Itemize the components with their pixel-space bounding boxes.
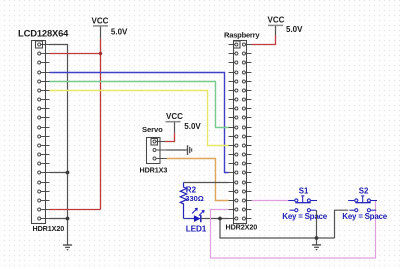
- wire: red VCC1 to LCD pin2: [50, 53, 101, 55]
- junction dot LCD pin20 bus: [66, 217, 70, 221]
- wire: LCD pin20 to bus: [50, 218, 68, 220]
- svg-text:5.0V: 5.0V: [111, 27, 128, 36]
- header J1 LCD128X64 HDR1X20: [32, 41, 50, 224]
- ground GND3 below S1: [312, 245, 321, 250]
- power VCC1 symbol: [92, 17, 129, 39]
- wire: magenta Raspberry pin18 right to S1: [252, 200, 289, 202]
- junction dot red VCC1 net: [99, 52, 102, 55]
- svg-text:Raspberry: Raspberry: [224, 30, 260, 39]
- svg-text:HDR1X20: HDR1X20: [33, 224, 65, 233]
- svg-text:S1: S1: [299, 187, 309, 196]
- svg-text:VCC: VCC: [166, 112, 183, 121]
- svg-text:5.0V: 5.0V: [184, 122, 201, 131]
- ground GND1 below LCD bus: [63, 245, 72, 250]
- wire: LED cathode to Raspberry pin20 left: [201, 218, 229, 220]
- svg-text:LED1: LED1: [186, 224, 207, 233]
- svg-text:LCD128X64: LCD128X64: [18, 27, 69, 38]
- wire: LCD pin15 to bus: [50, 172, 68, 174]
- junction dot LED cathode node: [218, 217, 222, 221]
- junction dot ground rail: [315, 236, 319, 240]
- svg-text:Servo: Servo: [142, 125, 163, 134]
- wire: S1 lower-right terminal down to ground junction: [316, 210, 318, 245]
- wire: red servo pin1 to VCC3: [165, 133, 175, 142]
- wire: bus to ground stem: [67, 219, 69, 246]
- svg-text:5.0V: 5.0V: [286, 25, 303, 34]
- wire: junction down to ground rail: [220, 219, 335, 239]
- switch S2: [348, 196, 377, 212]
- wire: yellow LCD pin6 to Raspberry pin12: [50, 91, 229, 146]
- header J2 Raspberry HDR2X20: [229, 41, 252, 224]
- wire: S2 lower-left terminal to ground rail: [335, 210, 349, 238]
- wire: magenta Raspberry pin19 left to S2 via bottom: [211, 201, 376, 259]
- wire: red VCC2 to Raspberry pin1 right: [252, 35, 276, 44]
- LED LED1: [184, 208, 205, 222]
- svg-text:S2: S2: [359, 187, 369, 196]
- svg-text:VCC: VCC: [268, 15, 285, 24]
- power VCC3 symbol: [166, 112, 202, 133]
- switch S1: [288, 196, 317, 212]
- junction dot LCD pin15 bus: [66, 171, 70, 175]
- svg-text:HDR2X20: HDR2X20: [226, 223, 258, 232]
- svg-text:HDR1X3: HDR1X3: [140, 166, 168, 175]
- wire: green LCD pin5 to Raspberry pin10: [50, 82, 229, 128]
- wire: red VCC1 to LCD pin19: [50, 209, 101, 211]
- resistor R2: [180, 183, 186, 219]
- wire: orange servo pin3 to Raspberry pin18 left: [167, 159, 229, 201]
- svg-text:VCC: VCC: [92, 17, 109, 26]
- wire: LCD pin1 to ground bus: [50, 45, 68, 219]
- wire: blue LCD pin4 to Raspberry pin15: [50, 73, 229, 173]
- header J3 Servo HDR1X3: [147, 138, 167, 164]
- power VCC2 symbol: [268, 15, 304, 35]
- wire: red VCC1 vertical: [100, 39, 102, 210]
- wire: servo pin2 to ground GND2: [167, 149, 188, 151]
- svg-text:330Ω: 330Ω: [185, 194, 204, 203]
- svg-text:Key = Space: Key = Space: [282, 212, 327, 221]
- ground GND2 rotated at servo: [188, 145, 192, 155]
- svg-text:Key = Space: Key = Space: [342, 212, 387, 221]
- wire: Raspberry pin16 left to R2 top: [184, 182, 229, 184]
